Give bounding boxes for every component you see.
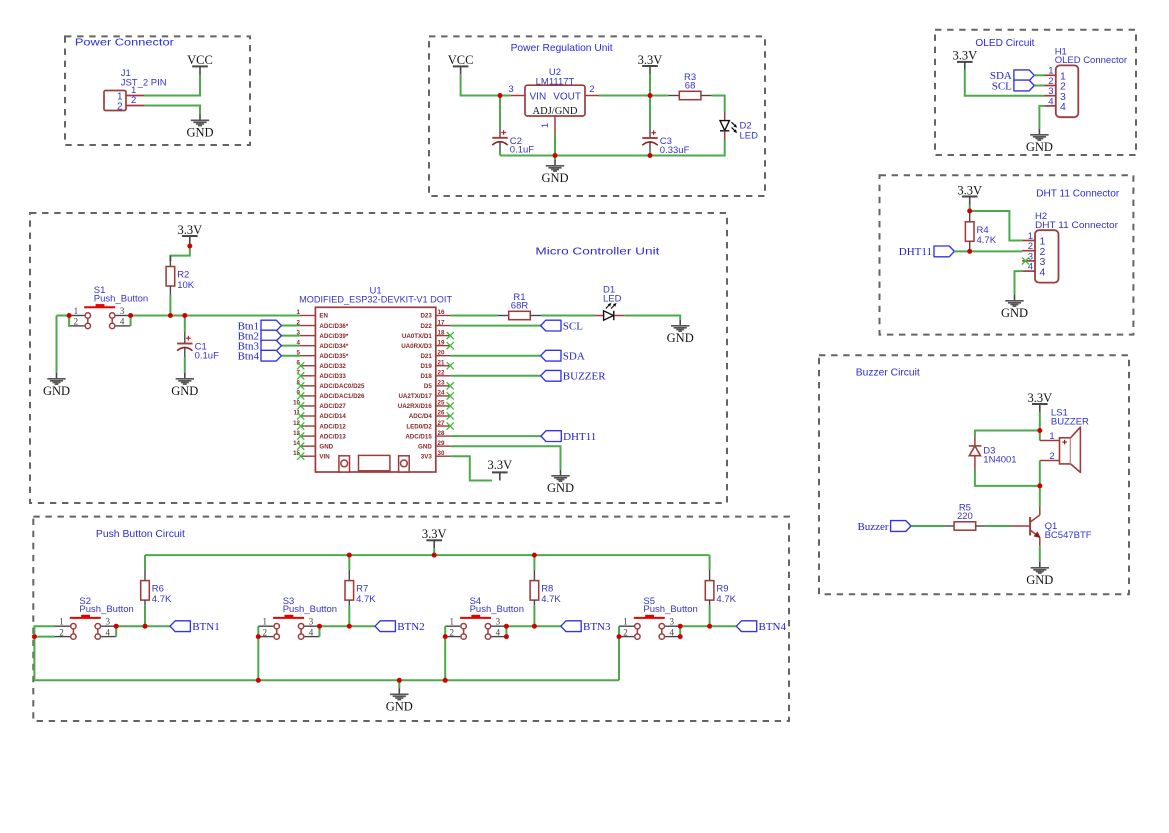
net flag BTN1	[170, 621, 220, 633]
wire rail to R9	[709, 555, 711, 570]
svg-text:3: 3	[120, 306, 125, 316]
svg-text:4: 4	[496, 627, 501, 637]
svg-text:UA2RX/D16: UA2RX/D16	[398, 403, 433, 410]
svg-text:GND: GND	[1026, 140, 1053, 154]
wire U1 GND pin29	[451, 446, 561, 470]
no-connect U1 pin 10	[297, 402, 304, 409]
pin 25 UA2RX/D16	[436, 405, 451, 407]
svg-text:GND: GND	[1001, 306, 1028, 320]
pin 19 UA0RX/D3	[436, 345, 451, 347]
wire H2 pin4 to GND	[1015, 271, 1023, 295]
no-connect U1 pin 7	[297, 372, 304, 379]
wire 3.3V down	[1039, 412, 1041, 441]
ground	[386, 689, 413, 714]
junction	[967, 249, 972, 254]
svg-text:4.7K: 4.7K	[716, 594, 736, 605]
wire S3 down to rail	[257, 637, 259, 681]
pin 10 ADC/D27	[300, 405, 316, 407]
svg-text:17: 17	[438, 319, 445, 326]
no-connect U1 pin 8	[297, 382, 304, 389]
capacitor C2 0.1uF	[492, 96, 534, 156]
section box Buzzer Circuit	[819, 355, 1129, 594]
no-connect U1 pin 26	[447, 412, 454, 419]
led D1	[595, 285, 625, 321]
switch S3 Push_Button	[258, 596, 337, 639]
wire Btn1 to U1	[281, 325, 300, 327]
resistor R2 10K	[166, 256, 195, 295]
no-connect H2 pin3	[1022, 257, 1029, 264]
junction	[1037, 428, 1042, 433]
pin 29 GND	[436, 445, 451, 447]
wire R6 to button net	[144, 606, 146, 627]
svg-text:ADC/D32: ADC/D32	[319, 363, 346, 370]
svg-text:GND: GND	[319, 443, 333, 450]
wire S3 pins34 hook	[319, 626, 321, 636]
pin 9 ADC/DAC1/D26	[300, 395, 316, 397]
wire U1 ADC/D15 to DHT11	[451, 435, 541, 437]
svg-text:ADC/D39*: ADC/D39*	[319, 333, 348, 340]
wire S4 pins34 hook	[505, 626, 507, 636]
resistor R7 4.7K	[345, 570, 376, 606]
svg-text:3: 3	[669, 617, 674, 627]
net flag Btn1	[261, 320, 281, 331]
pin 13 ADC/D13	[300, 435, 316, 437]
section box Power Connector	[65, 36, 250, 145]
svg-text:JST_2 PIN: JST_2 PIN	[121, 78, 167, 89]
svg-text:BTN2: BTN2	[397, 621, 425, 633]
junction	[182, 313, 187, 318]
svg-text:68R: 68R	[511, 300, 529, 311]
wire R8 to button net	[533, 606, 535, 627]
pin 21 D19	[436, 365, 451, 367]
junction	[532, 553, 537, 558]
svg-text:4.7K: 4.7K	[977, 235, 997, 246]
svg-text:VIN: VIN	[319, 453, 330, 460]
svg-text:3.3V: 3.3V	[422, 527, 447, 541]
svg-text:0.1uF: 0.1uF	[195, 350, 219, 361]
junction	[648, 153, 653, 158]
net flag Btn2	[261, 330, 281, 341]
no-connect U1 pin 18	[447, 332, 454, 339]
junction	[678, 634, 683, 639]
svg-text:Btn4: Btn4	[238, 351, 260, 363]
pin 28 ADC/D15	[436, 435, 451, 437]
junction	[432, 553, 437, 558]
wire EN main net right	[131, 315, 300, 317]
svg-text:LED: LED	[740, 131, 759, 142]
wire Btn2 to U1	[281, 335, 300, 337]
svg-text:MODIFIED_ESP32-DEVKIT-V1 DOIT: MODIFIED_ESP32-DEVKIT-V1 DOIT	[299, 294, 452, 305]
power VCC	[448, 53, 474, 74]
net flag Btn4	[261, 350, 281, 361]
wire VCC to U2 VIN	[461, 74, 511, 96]
svg-text:DHT11: DHT11	[563, 431, 596, 443]
wire S2 pin2 to left vertical	[34, 637, 55, 681]
wire S2 pin1 hook	[34, 626, 55, 636]
wire R3 to LED D2	[712, 96, 725, 113]
svg-text:ADC/D15: ADC/D15	[405, 433, 432, 440]
section box OLED Circuit	[935, 30, 1136, 155]
junction	[553, 153, 558, 158]
no-connect U1 pin 15	[297, 453, 304, 460]
junction	[143, 624, 148, 629]
power 3.3V	[952, 49, 977, 70]
wire S5 pins34 hook	[679, 626, 681, 636]
svg-text:VOUT: VOUT	[553, 91, 581, 102]
pin 27 LED0/D2	[436, 425, 451, 427]
svg-text:ADJ/GND: ADJ/GND	[533, 106, 578, 117]
wire 3.3V branch to H2 pin1	[970, 211, 1023, 241]
wire U1 D21 to SDA	[451, 355, 541, 357]
svg-text:ADC/D12: ADC/D12	[319, 423, 346, 430]
svg-text:4.7K: 4.7K	[356, 594, 376, 605]
wire 3.3V to rail	[433, 548, 435, 555]
svg-text:D19: D19	[420, 363, 432, 370]
svg-text:20: 20	[438, 349, 445, 356]
junction	[504, 634, 509, 639]
svg-text:21: 21	[438, 359, 445, 366]
svg-text:Push_Button: Push_Button	[283, 604, 337, 615]
svg-text:1N4001: 1N4001	[983, 455, 1016, 466]
svg-text:2: 2	[449, 627, 454, 637]
ground	[1026, 129, 1053, 154]
svg-text:BTN1: BTN1	[192, 621, 220, 633]
wire S2 to BTN1	[116, 625, 170, 627]
wire U1 D22 to SCL	[451, 325, 541, 327]
wire S1 pins 3-4 hook	[130, 316, 132, 326]
wire D1 to GND	[625, 316, 680, 321]
svg-text:Push_Button: Push_Button	[470, 604, 524, 615]
svg-text:Push_Button: Push_Button	[643, 604, 697, 615]
pin 23 D5	[436, 385, 451, 387]
svg-text:1: 1	[74, 306, 79, 316]
resistor R9 4.7K	[705, 570, 736, 606]
wire to ground left	[56, 316, 58, 374]
wire R1 to LED D1	[541, 315, 595, 317]
net flag SDA	[990, 70, 1034, 82]
svg-text:4: 4	[669, 627, 674, 637]
junction	[317, 624, 322, 629]
svg-text:3.3V: 3.3V	[1027, 391, 1052, 405]
svg-text:Power Regulation Unit: Power Regulation Unit	[511, 42, 613, 54]
wire S4 down to rail	[444, 637, 446, 681]
junction	[504, 624, 509, 629]
no-connect U1 pin 14	[297, 443, 304, 450]
junction	[187, 244, 192, 249]
svg-text:1: 1	[1049, 431, 1054, 442]
transistor Q1 BC547BTF	[1010, 506, 1092, 546]
svg-text:4.7K: 4.7K	[541, 594, 561, 605]
junction	[168, 313, 173, 318]
no-connect U1 pin 21	[447, 362, 454, 369]
svg-text:ADC/DAC0/D25: ADC/DAC0/D25	[319, 383, 365, 390]
svg-text:4: 4	[1040, 266, 1046, 278]
svg-text:Micro Controller Unit: Micro Controller Unit	[535, 246, 659, 258]
wire S3 pin1 hook	[257, 626, 259, 636]
pin 3 ADC/D39*	[300, 335, 316, 337]
svg-text:4: 4	[1060, 101, 1066, 113]
svg-text:D23: D23	[420, 313, 432, 320]
wire S3 to BTN2	[320, 625, 376, 627]
junction	[617, 634, 622, 639]
wire R9 to button net	[709, 606, 711, 627]
pin 18 UA0TX/D1	[436, 335, 451, 337]
junction	[256, 678, 261, 683]
pin 30 3V3	[436, 455, 451, 457]
junction	[1037, 483, 1042, 488]
svg-text:10K: 10K	[177, 280, 195, 291]
net flag Btn3	[261, 340, 281, 351]
svg-text:Push_Button: Push_Button	[94, 293, 148, 304]
svg-text:ADC/D34*: ADC/D34*	[319, 343, 348, 350]
wire D2 to bottom rail	[500, 140, 725, 156]
wire R5 to Q1 base	[985, 525, 1012, 527]
svg-text:3V3: 3V3	[421, 453, 433, 460]
svg-text:GND: GND	[418, 443, 432, 450]
svg-text:GND: GND	[547, 481, 574, 495]
led D2	[720, 112, 758, 142]
svg-text:2: 2	[131, 95, 136, 106]
junction	[397, 678, 402, 683]
pin 7 ADC/D33	[300, 375, 316, 377]
wire R4 to DHT11 net	[969, 249, 971, 251]
svg-text:4: 4	[1048, 96, 1053, 107]
svg-text:24: 24	[438, 390, 445, 397]
capacitor C1 0.1uF	[177, 316, 219, 374]
connector H1 OLED Connector	[1045, 46, 1128, 117]
svg-text:2: 2	[74, 317, 79, 327]
svg-text:EN: EN	[319, 313, 328, 320]
no-connect U1 pin 23	[447, 382, 454, 389]
pin 20 D21	[436, 355, 451, 357]
net flag BUZZER	[541, 370, 607, 382]
wire R2 to EN net	[169, 295, 171, 316]
wire top rail	[145, 554, 710, 556]
svg-text:UA2TX/D17: UA2TX/D17	[398, 393, 432, 400]
svg-text:D22: D22	[420, 323, 432, 330]
pin 26 ADC/D4	[436, 415, 451, 417]
wire EN main net left	[57, 315, 72, 317]
wire S4 to BTN3	[506, 625, 560, 627]
net flag DHT11	[899, 246, 955, 258]
svg-text:27: 27	[438, 420, 445, 427]
resistor R1 68R	[498, 292, 541, 320]
section box Push Button Circuit	[33, 517, 789, 721]
power 3.3V	[638, 53, 663, 74]
svg-text:BTN4: BTN4	[759, 621, 787, 633]
wire S2 pins34 hook	[115, 626, 117, 636]
svg-text:3.3V: 3.3V	[952, 49, 977, 63]
no-connect U1 pin 12	[297, 422, 304, 429]
svg-text:2: 2	[59, 627, 64, 637]
section box Micro Controller Unit	[30, 213, 727, 503]
wire rail to R6	[144, 555, 146, 570]
junction	[347, 624, 352, 629]
net flag SCL	[541, 320, 584, 332]
junction	[114, 624, 119, 629]
svg-text:30: 30	[438, 450, 445, 457]
svg-text:GND: GND	[171, 384, 198, 398]
junction	[678, 624, 683, 629]
svg-text:OLED Connector: OLED Connector	[1055, 55, 1127, 66]
junction	[256, 634, 261, 639]
resistor R3 68	[669, 72, 712, 100]
resistor R4 4.7K	[965, 211, 996, 249]
resistor R8 4.7K	[530, 570, 561, 606]
svg-text:3.3V: 3.3V	[957, 183, 982, 197]
wire J1 pin2 to GND	[144, 106, 200, 115]
junction	[498, 93, 503, 98]
svg-text:1: 1	[263, 617, 268, 627]
resistor R5 220	[944, 503, 985, 531]
no-connect U1 pin 27	[447, 422, 454, 429]
svg-text:LED: LED	[603, 294, 622, 305]
wire bottom rail	[34, 679, 619, 681]
svg-text:29: 29	[438, 440, 445, 447]
svg-text:3.3V: 3.3V	[638, 53, 663, 67]
junction	[443, 678, 448, 683]
junction	[32, 634, 37, 639]
svg-text:BTN3: BTN3	[583, 621, 611, 633]
svg-text:ADC/D4: ADC/D4	[409, 413, 433, 420]
mcu U1 MODIFIED_ESP32-DEVKIT-V1 DOIT	[293, 285, 452, 472]
switch S2 Push_Button	[55, 596, 134, 639]
pin 11 ADC/D14	[300, 415, 316, 417]
net flag Buzzer	[857, 521, 911, 533]
no-connect U1 pin 11	[297, 412, 304, 419]
junction	[67, 313, 72, 318]
svg-text:4: 4	[120, 317, 125, 327]
svg-text:3: 3	[496, 617, 501, 627]
svg-text:VCC: VCC	[187, 53, 213, 67]
buzzer LS1	[1040, 407, 1089, 472]
wire R7 to button net	[348, 606, 350, 627]
power 3.3V	[487, 458, 512, 481]
svg-text:0.1uF: 0.1uF	[510, 145, 534, 156]
junction	[443, 634, 448, 639]
pin 16 D23	[436, 315, 451, 317]
power 3.3V	[177, 223, 202, 244]
svg-text:28: 28	[438, 430, 445, 437]
wire S4 pin1 hook	[444, 626, 446, 636]
pin 2 ADC/D36*	[300, 325, 316, 327]
regulator U2 LM1117T	[508, 67, 599, 135]
power 3.3V	[957, 183, 982, 204]
svg-text:Buzzer: Buzzer	[857, 521, 888, 533]
wire buzzer pin2 down	[1039, 461, 1041, 486]
svg-text:Buzzer Circuit: Buzzer Circuit	[856, 367, 920, 379]
svg-text:SCL: SCL	[563, 320, 583, 332]
svg-text:3: 3	[105, 617, 110, 627]
svg-text:1: 1	[449, 617, 454, 627]
wire 3.3V to H1 pin3	[965, 70, 1045, 96]
ground	[547, 470, 574, 495]
wire D3 bottom	[975, 470, 1040, 486]
ground	[541, 160, 568, 185]
svg-text:BUZZER: BUZZER	[563, 371, 606, 383]
svg-text:3.3V: 3.3V	[487, 458, 512, 472]
pin 8 ADC/DAC0/D25	[300, 385, 316, 387]
svg-text:OLED Circuit: OLED Circuit	[975, 37, 1034, 49]
resistor R6 4.7K	[141, 570, 172, 606]
wire S5 down to rail	[618, 637, 620, 681]
svg-text:1: 1	[540, 123, 551, 128]
svg-text:DHT11: DHT11	[899, 246, 932, 258]
no-connect U1 pin 24	[447, 392, 454, 399]
junction	[532, 624, 537, 629]
pin 24 UA2TX/D17	[436, 395, 451, 397]
svg-text:19: 19	[438, 339, 445, 346]
switch S1 Push_Button	[69, 285, 148, 328]
wire S5 to BTN4	[680, 625, 736, 627]
svg-text:4: 4	[105, 627, 110, 637]
pin 22 D18	[436, 375, 451, 377]
junction	[967, 209, 972, 214]
wire rail to R8	[533, 555, 535, 570]
net flag SCL	[992, 80, 1035, 92]
svg-text:GND: GND	[1026, 573, 1053, 587]
wire Q1 emitter to GND	[1039, 546, 1041, 562]
wire U2 VOUT to 3.3V rail	[599, 95, 669, 97]
svg-text:Power Connector: Power Connector	[75, 37, 175, 49]
svg-text:25: 25	[438, 400, 445, 407]
svg-text:BUZZER: BUZZER	[1051, 417, 1089, 428]
svg-text:ADC/D14: ADC/D14	[319, 413, 346, 420]
svg-text:220: 220	[957, 511, 973, 522]
capacitor C3 0.33uF	[642, 96, 689, 156]
svg-text:ADC/D33: ADC/D33	[319, 373, 346, 380]
power 3.3V	[1027, 391, 1052, 412]
svg-text:ADC/D36*: ADC/D36*	[319, 323, 348, 330]
svg-text:BC547BTF: BC547BTF	[1045, 530, 1092, 541]
svg-text:ADC/D27: ADC/D27	[319, 403, 346, 410]
svg-text:DHT 11 Connector: DHT 11 Connector	[1035, 220, 1118, 231]
svg-text:3: 3	[309, 617, 314, 627]
svg-text:4: 4	[309, 627, 314, 637]
svg-text:D18: D18	[420, 373, 432, 380]
svg-text:VCC: VCC	[448, 53, 474, 67]
junction	[648, 93, 653, 98]
wire SCL to H1 pin2	[1034, 85, 1044, 87]
ground	[667, 320, 694, 345]
wire to ground	[554, 156, 556, 161]
junction	[347, 553, 352, 558]
svg-text:1: 1	[59, 617, 64, 627]
svg-text:0.33uF: 0.33uF	[660, 145, 690, 156]
svg-text:LED0/D2: LED0/D2	[406, 423, 432, 430]
svg-text:Push_Button: Push_Button	[79, 604, 133, 615]
svg-text:68: 68	[685, 80, 696, 91]
ground	[43, 373, 70, 398]
svg-text:26: 26	[438, 410, 445, 417]
wire U1 D18 to BUZZER	[451, 375, 541, 377]
pin 17 D22	[436, 325, 451, 327]
net flag BTN2	[375, 621, 425, 633]
svg-text:23: 23	[438, 380, 445, 387]
svg-text:3.3V: 3.3V	[177, 223, 202, 237]
svg-text:4.7K: 4.7K	[152, 594, 172, 605]
svg-text:1: 1	[623, 617, 628, 627]
section box Power Regulation Unit	[429, 36, 765, 196]
wire SDA to H1 pin1	[1034, 74, 1044, 76]
wire to D3 top	[975, 431, 1040, 438]
pin 15 VIN	[300, 455, 316, 457]
connector J1 JST_2 PIN	[104, 68, 167, 112]
svg-text:SCL: SCL	[992, 80, 1012, 92]
svg-text:ADC/D35*: ADC/D35*	[319, 353, 348, 360]
svg-text:2: 2	[1049, 451, 1054, 462]
wire DHT11 to H2 pin2	[954, 250, 1022, 252]
